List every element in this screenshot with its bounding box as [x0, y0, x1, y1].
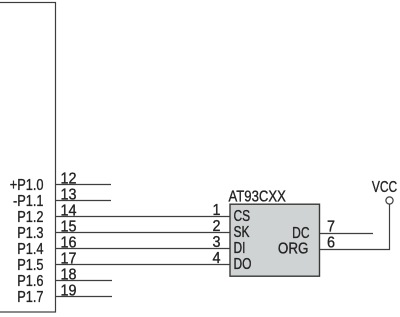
IC pin name DC [292, 223, 309, 241]
wire pin 13 [56, 200, 112, 202]
wire pin 15 to SK [56, 232, 231, 234]
IC pin name CS [234, 206, 251, 224]
IC pin name DI [234, 238, 246, 256]
IC pin name DO [234, 254, 252, 272]
wire pin 6 ORG to VCC [320, 249, 391, 251]
svg-text:4: 4 [212, 249, 221, 267]
pin number 17 [61, 250, 77, 268]
wire pin 16 to DI [56, 248, 231, 250]
wire pin 14 to CS [56, 216, 231, 218]
pin number 19 [61, 282, 77, 300]
microcontroller port box [0, 3, 56, 313]
pin label P1.6 [17, 273, 43, 291]
wire pin 18 [56, 280, 113, 282]
wire pin 12 [56, 184, 112, 186]
pin label P1.4 [17, 241, 43, 259]
IC pin name SK [234, 222, 250, 240]
svg-text:P1.7: P1.7 [17, 289, 43, 307]
IC pin number 7 [327, 218, 335, 236]
IC pin number 2 [212, 217, 220, 235]
pin number 14 [61, 202, 78, 220]
pin number 18 [61, 266, 77, 284]
pin number 13 [61, 186, 77, 204]
IC label AT93CXX [229, 188, 287, 205]
IC pin number 4 [212, 249, 221, 267]
wire pin 7 DC stub [320, 233, 374, 235]
VCC terminal circle [386, 197, 393, 204]
pin label P1.5 [17, 257, 43, 275]
IC pin number 1 [212, 201, 220, 219]
svg-text:DO: DO [234, 254, 252, 272]
pin label -P1.1 [13, 193, 44, 211]
svg-text:DC: DC [292, 223, 309, 241]
pin number 16 [61, 234, 77, 252]
pin number 12 [61, 170, 77, 188]
IC pin number 3 [212, 233, 220, 251]
IC pin number 6 [327, 234, 335, 252]
svg-text:AT93CXX: AT93CXX [229, 188, 287, 205]
pin label P1.3 [17, 225, 43, 243]
IC AT93CXX body [230, 204, 320, 276]
pin label P1.2 [17, 209, 43, 227]
wire pin 19 [56, 296, 113, 298]
IC pin name ORG [278, 241, 309, 258]
pin label P1.7 [17, 289, 43, 307]
svg-text:ORG: ORG [278, 241, 309, 258]
wire VCC vertical [389, 205, 391, 251]
pin label +P1.0 [10, 177, 44, 195]
svg-text:VCC: VCC [372, 177, 397, 195]
wire pin 17 to DO [56, 264, 231, 266]
pin number 15 [61, 218, 77, 236]
VCC label [372, 177, 397, 195]
